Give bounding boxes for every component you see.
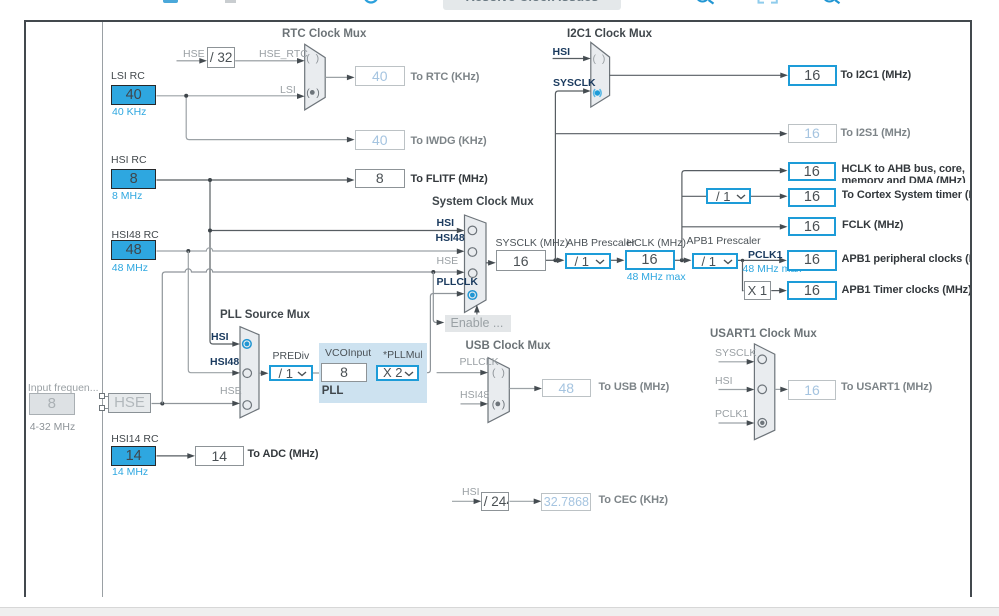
wire SYSCLK box to AHB prescaler: [546, 259, 558, 261]
wire RTC mux output: [325, 76, 347, 78]
value box To CEC: [541, 493, 591, 511]
label HSI (PLL): [211, 332, 229, 343]
toolbar: gray icon sliver: [225, 0, 236, 3]
diagram frame left border: [24, 20, 26, 598]
PLL Source Mux body: [240, 327, 259, 418]
wire HSI stub to USART1 mux: [719, 389, 748, 391]
label SYSCLK (USART1): [715, 348, 756, 359]
svg-text:(: (: [306, 87, 310, 99]
RTC Clock Mux body: [305, 44, 326, 110]
label HSI48 RC: [112, 230, 159, 241]
PLL panel: [319, 343, 427, 403]
dropdown APB1 prescaler /1: [692, 253, 739, 269]
wire APB1 prescaler to peripheral box (PCLK1): [738, 259, 780, 261]
arrow HSI into USART1 mux: [747, 387, 755, 393]
wire /244 to CEC box: [510, 500, 535, 502]
wire USART1 mux output: [775, 388, 781, 390]
value box To ADC: [195, 446, 244, 466]
value box HCLK: [625, 250, 675, 270]
arrow System mux out into SYSCLK box: [488, 260, 496, 266]
value box Cortex timer: [788, 188, 837, 208]
title I2C1 Clock Mux: [567, 28, 652, 40]
dropdown PREDiv /1: [269, 365, 314, 381]
wire SYSCLK branch to I2S1: [555, 133, 780, 135]
title System Clock Mux: [432, 196, 534, 208]
label To ADC (MHz): [248, 449, 319, 461]
label 48 MHz max: [627, 272, 686, 283]
label PLLCLK: [437, 277, 478, 288]
oscillator HSI14 RC box: [111, 446, 157, 466]
label AHB Prescaler: [567, 238, 636, 249]
wire PLLMul up to System mux PLLCLK input: [419, 294, 458, 373]
wire PREDiv to VCOInput box: [313, 372, 321, 374]
radio PLL input3 unselected: [243, 401, 252, 410]
value box To USART1: [788, 380, 836, 400]
value box SYSCLK: [496, 250, 546, 270]
label SYSCLK: [553, 78, 596, 89]
wire HSI48 vertical down to PLL mux: [188, 251, 233, 373]
wire HSE vertical up and to System mux (hops over HSI48, HSI): [162, 269, 457, 404]
label 8 MHz: [112, 191, 142, 202]
arrow Enable CSS up into mux: [474, 305, 480, 313]
value box To I2C1: [788, 65, 837, 86]
wire HSI48 output to System mux (with hop over HSI): [157, 248, 458, 251]
label HSE stub: [183, 49, 205, 60]
arrow HSI14 into ADC box: [187, 453, 195, 459]
label HSI (USART1): [715, 376, 733, 387]
arrow PLL mux out into PREDiv: [261, 370, 269, 376]
label APB1 Timer clocks (MHz): [842, 285, 972, 297]
arrow HCLK into AHB-bus box: [780, 168, 788, 174]
label PCLK1 (USART1): [715, 409, 748, 420]
svg-text:): ): [316, 87, 320, 99]
value box APB1 peripheral: [787, 250, 837, 270]
label PCLK1: [748, 250, 782, 261]
label 4-32 MHz: [30, 422, 76, 433]
svg-text:( ): ( ): [492, 367, 505, 379]
label HSI: [437, 218, 455, 229]
svg-text:(: (: [492, 399, 496, 411]
label To FLITF (MHz): [411, 174, 488, 186]
System Clock Mux body: [465, 215, 487, 313]
label 40 KHz: [112, 107, 146, 118]
radio System input3 unselected: [468, 269, 477, 278]
arrow LSI into RTC mux: [297, 93, 305, 99]
bottom scrollbar area: [0, 607, 999, 608]
label HSI48: [436, 233, 465, 244]
oscillator HSI48 RC box: [111, 240, 157, 260]
svg-text:): ): [502, 399, 506, 411]
label To I2S1 (MHz): [841, 128, 911, 140]
wire PLLCLK stub to USB mux: [437, 372, 481, 374]
wire HSE stub to /32: [177, 60, 200, 62]
value box VCOInput: [321, 363, 367, 382]
label HSI (CEC): [462, 487, 480, 498]
wire HSE box output to PLL mux: [152, 403, 234, 405]
label HCLK (MHz): [627, 238, 687, 249]
arrow SYSCLK into USART1 mux: [747, 359, 755, 365]
label 48 MHz max (PCLK1): [743, 264, 802, 275]
value box To USB: [542, 379, 591, 397]
arrow HSI into PLL mux: [232, 341, 240, 347]
arrow HSE into /32: [199, 58, 207, 64]
label HSE (PLL): [220, 386, 242, 397]
node HSI junction at FLITF row: [208, 178, 212, 182]
node HSI48 junction: [186, 249, 190, 253]
arrow HSE into Enable CSS: [437, 320, 445, 326]
label HCLK to AHB bus (2 lines, clipped): [842, 163, 969, 184]
arrow USART1 out into box: [780, 387, 788, 393]
arrow AHB out into HCLK box: [617, 258, 625, 264]
wire System mux output: [486, 262, 489, 264]
MCU pin rail vertical line: [102, 22, 104, 597]
arrow I2C1 out into box: [780, 73, 788, 79]
arrow HSI48 into PLL mux: [232, 370, 240, 376]
value box To IWDG: [355, 130, 405, 150]
arrow SYSCLK up into I2C1 mux: [583, 88, 591, 94]
wire HSI48 stub to USB mux: [461, 403, 482, 405]
dropdown Cortex prescaler /1: [706, 188, 751, 204]
radio USART1 input2 unselected: [758, 385, 767, 394]
label SYSCLK (MHz): [496, 238, 569, 249]
dropdown PLLMul X2: [376, 365, 419, 382]
value box HCLK to AHB: [788, 162, 837, 181]
divider /244 box: [481, 492, 509, 511]
wire Cortex prescaler to timer box: [751, 195, 780, 197]
label HSI48 (USB): [460, 390, 489, 401]
node HSE CSS junction: [431, 270, 435, 274]
wire SYSCLK stub to USART1 mux: [719, 361, 748, 363]
wire HCLK branch to FCLK box: [682, 226, 780, 228]
arrow SYSCLK into I2S1 box: [780, 131, 788, 137]
arrow HSI into FLITF box: [347, 177, 355, 183]
wire HSE down to Enable CSS: [433, 272, 437, 323]
arrow HCLK into APB1 prescaler: [684, 258, 692, 264]
label HSE: [437, 256, 459, 267]
pin square OSC_IN: [99, 393, 105, 399]
label HSE_RTC: [259, 49, 308, 60]
label PLLCLK (USB): [460, 357, 499, 368]
label To I2C1 (MHz): [841, 70, 912, 82]
wire HSI output to FLITF: [157, 179, 348, 181]
label LSI RC: [111, 71, 145, 82]
label To Cortex System timer (clipped): [842, 190, 972, 204]
oscillator LSI RC box: [111, 85, 157, 105]
title USART1 Clock Mux: [710, 328, 817, 340]
diagram frame right border: [970, 20, 973, 598]
arrow HSI into System mux: [457, 228, 465, 234]
wire HSI14 output to ADC: [157, 455, 189, 457]
node PCLK1 junction: [741, 259, 744, 262]
svg-text:( ): ( ): [593, 53, 606, 65]
dropdown AHB prescaler /1: [565, 253, 611, 269]
wire HSI stub to CEC /244: [452, 500, 474, 502]
wire Enable CSS up-arrow into mux: [476, 308, 478, 315]
toolbar: fit-screen brackets sliver: [759, 0, 765, 3]
label 48 MHz: [112, 263, 148, 274]
wire PCLK1 down into X1: [743, 260, 744, 290]
USB Clock Mux body: [488, 358, 509, 423]
arrow Cortex prescaler into timer box: [780, 194, 788, 200]
label PLL: [322, 385, 344, 397]
toolbar: Resolve Clock Issues button (clipped): [443, 0, 621, 10]
pin connector stubs: [105, 396, 108, 397]
title PLL Source Mux: [220, 309, 310, 321]
radio System input4 selected blue: [468, 291, 477, 300]
label PREDiv: [273, 351, 310, 362]
toolbar: save icon sliver: [163, 0, 179, 3]
wire VCOInput box to PLLMul: [367, 372, 376, 374]
wire PCLK1 stub to USART1 mux: [719, 422, 748, 424]
arrow HSE into System mux: [457, 270, 465, 276]
label HSI: [553, 47, 571, 58]
arrow PLLCLK into System mux: [457, 291, 465, 297]
label To CEC (KHz): [599, 495, 668, 507]
wire HCLK vertical up, branch to AHB-bus box: [682, 171, 780, 261]
radio USART1 input3 selected gray: [758, 419, 767, 428]
wire HSI stub to I2C1 mux: [553, 58, 584, 60]
wire HCLK branch to Cortex prescaler: [682, 195, 706, 197]
value box APB1 timer: [787, 281, 837, 300]
pin square OSC_OUT: [99, 405, 105, 411]
value box To RTC: [355, 66, 405, 86]
title RTC Clock Mux: [282, 28, 366, 40]
label APB1 Prescaler: [687, 236, 761, 247]
label HSI RC: [111, 155, 147, 166]
label VCOInput: [325, 348, 371, 359]
label LSI: [280, 85, 296, 96]
value box FCLK: [788, 217, 837, 236]
wire /32 to RTC mux HSE_RTC input: [235, 60, 297, 62]
label FCLK (MHz): [842, 220, 903, 232]
label Input frequency: [28, 383, 99, 394]
arrow /244 into CEC box: [534, 499, 542, 505]
arrow HSI48 into System mux: [457, 249, 465, 255]
input frequency box: [29, 393, 75, 415]
multiplier X1 box: [744, 281, 772, 300]
arrow HCLK into FCLK box: [780, 224, 788, 230]
radio System input2 unselected: [468, 248, 477, 257]
label HSI48 (PLL): [210, 357, 239, 368]
node SYSCLK junction: [553, 258, 557, 262]
toolbar: zoom-out magnifier sliver: [824, 0, 836, 2]
radio I2C1 input2 selected blue: [594, 89, 596, 97]
toolbar: blue ring icon sliver: [0, 0, 999, 14]
arrow PCLK1 into USART1 mux: [747, 420, 755, 426]
wire HCLK box to APB1 prescaler: [675, 259, 685, 261]
wire HSI vertical down to PLL mux: [210, 180, 234, 344]
value box To FLITF: [355, 169, 405, 189]
I2C1 Clock Mux body: [591, 42, 610, 107]
wire LSI output to RTC mux: [157, 95, 298, 97]
radio USART1 input1 unselected: [758, 355, 767, 364]
radio PLL input1 selected blue: [243, 340, 252, 349]
label *PLLMul: [383, 350, 423, 361]
value box To I2S1: [788, 124, 837, 143]
wire PLL mux output to PREDiv: [259, 372, 262, 374]
USART1 Clock Mux body: [754, 344, 774, 440]
label APB1 peripheral clocks (clipped): [842, 254, 972, 268]
label To USART1 (MHz): [841, 382, 932, 394]
wire USB mux output: [509, 388, 534, 390]
arrow SYSCLK into AHB prescaler: [557, 258, 565, 264]
radio System input1 unselected: [468, 226, 477, 235]
arrow HSI48 into USB mux: [480, 401, 488, 407]
enable CSS button: [445, 315, 512, 332]
radio PLL input2 unselected: [243, 369, 252, 378]
label To RTC (KHz): [411, 72, 480, 84]
label HSI14 RC: [111, 434, 158, 445]
arrow HSE into PLL mux: [232, 401, 240, 407]
node HSE junction: [160, 402, 164, 406]
arrow RTC mux out into box: [347, 75, 355, 81]
HSE oscillator box: [108, 393, 151, 413]
arrow PCLK1 into APB1 peripheral box: [779, 258, 787, 264]
title USB Clock Mux: [466, 340, 551, 352]
arrow USB out into box: [534, 386, 542, 392]
wire HSI branch to System mux: [210, 230, 458, 232]
svg-text:( ): ( ): [306, 53, 319, 65]
wire AHB prescaler to HCLK box: [611, 259, 618, 261]
arrow X1 out into APB1 timer box: [779, 288, 787, 294]
diagram frame top border: [24, 20, 972, 23]
node HSI junction at system branch: [208, 229, 212, 233]
label To USB (MHz): [599, 382, 670, 394]
node LSI junction: [184, 94, 188, 98]
node HCLK junction: [680, 258, 684, 262]
divider /32 box: [207, 47, 235, 68]
toolbar: zoom-in magnifier sliver: [697, 0, 709, 2]
wire I2C1 mux output: [610, 74, 781, 76]
arrow HSI into /244: [474, 499, 482, 505]
arrow PLLCLK into USB mux: [480, 370, 488, 376]
wire X1 to APB1 timer box: [771, 290, 779, 292]
arrow HSE_RTC into RTC mux: [297, 58, 305, 64]
label 14 MHz: [112, 467, 148, 478]
oscillator HSI RC box: [111, 169, 157, 189]
right side white mask: [972, 0, 999, 607]
wire LSI branch down to IWDG: [186, 96, 347, 140]
arrow HSI into I2C1 mux: [583, 56, 591, 62]
arrow LSI into IWDG box: [347, 137, 355, 143]
wire SYSCLK vertical up to I2C1 mux: [555, 91, 583, 260]
label To IWDG (KHz): [411, 136, 487, 148]
